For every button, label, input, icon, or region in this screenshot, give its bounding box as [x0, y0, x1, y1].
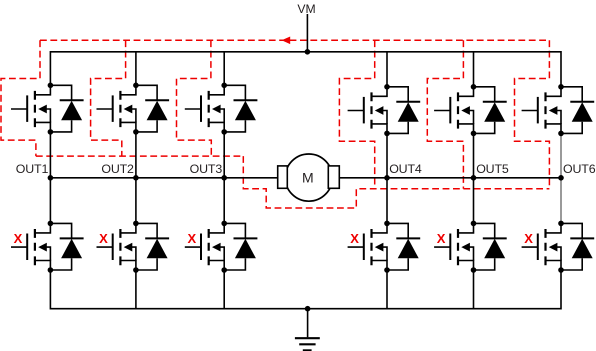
red current direction arrow [282, 37, 291, 45]
wire: col5 low source drop [473, 270, 475, 309]
svg-text:OUT1: OUT1 [16, 162, 49, 176]
transistor Q7 low-side with body diode [11, 221, 84, 273]
node OUT3 [221, 175, 227, 181]
node OUT1 [48, 175, 54, 181]
wire: col4 low source drop [386, 270, 388, 309]
transistor Q12 low-side with body diode [522, 221, 595, 273]
wire: VM top rail [50, 52, 561, 87]
wire: top rail drop col3 [223, 52, 225, 86]
wire: col1 high source to OUT1 [49, 132, 51, 178]
motor M1 [278, 154, 340, 201]
wire: OUT rail left [50, 177, 277, 179]
node OUT6 [558, 175, 564, 181]
red recirculation path: top line [40, 39, 549, 41]
node VM junction [305, 49, 311, 55]
red hook around high-side FET 6 [515, 40, 550, 189]
transistor Q8 low-side with body diode [96, 221, 169, 273]
svg-text:X: X [524, 231, 533, 246]
wire: VM stem [306, 14, 308, 52]
wire: top rail drop col2 [135, 52, 137, 86]
red hook around high-side FET 4 [339, 40, 374, 189]
wire: top rail drop col4 [386, 52, 388, 87]
transistor Q5 high-side with body diode [434, 84, 507, 136]
wire: top rail drop col5 [473, 52, 475, 87]
transistor Q9 low-side with body diode [185, 221, 258, 273]
transistor Q1 high-side with body diode [11, 83, 84, 135]
wire: OUT4 to low drain [386, 178, 388, 224]
red hook around high-side FET 1 [1, 40, 40, 156]
svg-text:VM: VM [297, 2, 315, 16]
transistor Q2 high-side with body diode [96, 83, 169, 135]
transistor Q10 low-side with body diode [348, 221, 421, 273]
node ground junction [305, 306, 311, 312]
svg-text:OUT6: OUT6 [563, 162, 596, 176]
svg-text:OUT4: OUT4 [389, 162, 422, 176]
svg-text:X: X [187, 231, 196, 246]
svg-text:X: X [437, 231, 446, 246]
node OUT4 [384, 175, 390, 181]
transistor Q3 high-side with body diode [185, 83, 258, 135]
transistor Q11 low-side with body diode [434, 221, 507, 273]
red hook around high-side FET 5 [427, 40, 463, 189]
red hook around high-side FET 2 [91, 40, 126, 156]
transistor Q6 high-side with body diode [522, 84, 595, 136]
wire: OUT2 to low drain [135, 178, 137, 224]
wire: col3 low source drop [223, 270, 225, 309]
svg-text:M: M [302, 169, 314, 185]
gray wire OUT6 column [560, 133, 562, 223]
svg-text:X: X [99, 231, 108, 246]
node OUT2 [133, 175, 139, 181]
wire: OUT3 to low drain [223, 178, 225, 224]
wire: OUT5 to low drain [473, 178, 475, 224]
wire: col2 low source drop [135, 270, 137, 309]
svg-text:OUT2: OUT2 [101, 162, 134, 176]
wire: col2 high source to OUT2 [135, 132, 137, 178]
node OUT5 [471, 175, 477, 181]
red horizontal link OUT1-OUT3 [36, 155, 243, 157]
wire: OUT1 to low drain [49, 178, 51, 224]
svg-text:OUT5: OUT5 [476, 162, 509, 176]
svg-text:X: X [14, 231, 23, 246]
transistor Q4 high-side with body diode [348, 84, 421, 136]
red hook around high-side FET 3 [177, 40, 212, 156]
wire: col3 high source to OUT3 [223, 132, 225, 178]
wire: col4 high source to OUT4 [386, 133, 388, 177]
red path under motor [243, 156, 549, 208]
wire: col5 high source to OUT5 [473, 133, 475, 177]
wire: OUT rail right [339, 177, 561, 179]
wire: bottom ground rail [50, 270, 561, 309]
svg-text:X: X [350, 231, 359, 246]
svg-text:OUT3: OUT3 [190, 162, 223, 176]
ground [295, 309, 320, 351]
